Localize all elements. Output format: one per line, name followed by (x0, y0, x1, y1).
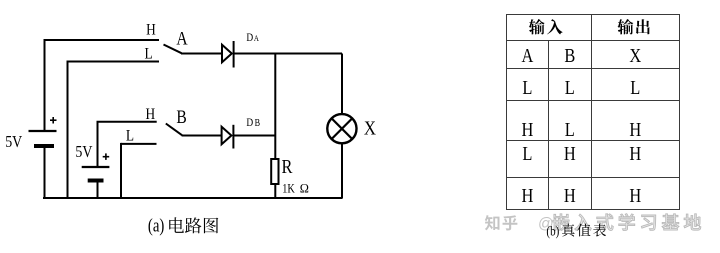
svg-text:B: B (564, 45, 575, 67)
svg-text:H: H (146, 21, 156, 38)
svg-text:H: H (521, 119, 533, 141)
svg-text:D: D (246, 117, 253, 129)
svg-text:A: A (176, 28, 188, 49)
svg-text:1K: 1K (282, 182, 295, 195)
svg-text:D: D (246, 32, 253, 44)
svg-text:B: B (176, 107, 186, 128)
svg-text:H: H (145, 106, 155, 123)
svg-text:Ω: Ω (300, 181, 309, 195)
svg-text:R: R (282, 156, 294, 178)
svg-text:(a): (a) (148, 215, 164, 236)
svg-text:H: H (521, 185, 533, 207)
svg-text:A: A (254, 33, 259, 43)
svg-text:B: B (255, 117, 260, 128)
svg-text:L: L (145, 45, 153, 62)
svg-text:L: L (630, 77, 640, 99)
svg-text:H: H (629, 119, 641, 141)
svg-text:L: L (522, 77, 532, 99)
svg-text:H: H (564, 143, 576, 165)
svg-text:H: H (629, 143, 641, 165)
svg-text:H: H (629, 185, 641, 207)
svg-text:L: L (126, 127, 134, 144)
svg-text:L: L (565, 77, 575, 99)
svg-text:(b): (b) (546, 223, 559, 238)
svg-text:5V: 5V (75, 143, 93, 162)
svg-text:L: L (522, 143, 532, 165)
svg-text:A: A (521, 45, 534, 67)
svg-text:L: L (565, 119, 575, 141)
svg-text:X: X (364, 117, 377, 140)
svg-text:5V: 5V (5, 133, 23, 152)
svg-text:H: H (564, 185, 576, 207)
svg-text:X: X (629, 45, 641, 67)
